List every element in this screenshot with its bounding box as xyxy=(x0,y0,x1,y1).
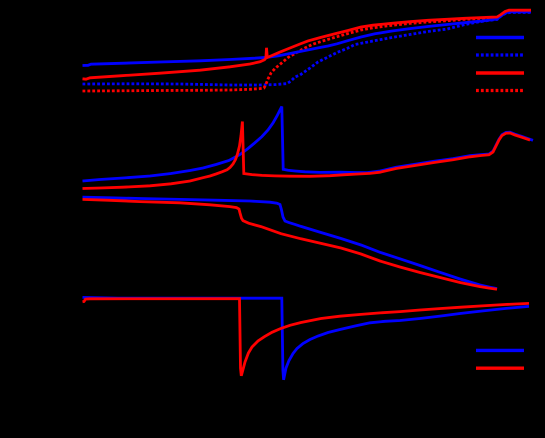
bottom panel: red curve (flat, dip at x=240, faster recovery) xyxy=(83,299,530,376)
top panel legend: red dotted sample line xyxy=(476,89,524,92)
middle panel: blue train-loss curve (step at x=282, descends to x=497) xyxy=(83,197,498,288)
middle panel: red test-loss curve (peak at x=242, merged tail with final bump) xyxy=(83,122,531,189)
bottom panel legend: blue solid sample line xyxy=(476,349,524,352)
bottom panel legend: red solid sample line xyxy=(476,367,524,370)
top panel legend: red solid sample line xyxy=(476,71,524,74)
top panel: blue solid curve (train accuracy, run 1) xyxy=(83,12,532,66)
top panel: red dotted curve (test accuracy, run 2) xyxy=(83,11,532,91)
top panel: blue dotted curve (test accuracy, run 1) xyxy=(83,13,532,86)
middle panel: blue test-loss curve (peak at x=282, merged tail to right) xyxy=(83,107,534,182)
middle panel: red train-loss curve (step at x=240, descends to x=497) xyxy=(83,199,498,289)
bottom panel: blue curve (flat, deep dip at x=283, slow recovery) xyxy=(83,297,530,379)
top panel legend: blue solid sample line xyxy=(476,36,524,39)
top panel: red solid curve (train accuracy, run 2, with glitch spike at x=266) xyxy=(83,10,532,79)
top panel legend: blue dotted sample line xyxy=(476,53,524,56)
